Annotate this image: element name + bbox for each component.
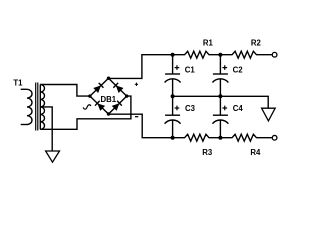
diode D-topright (AC2 to +) — [113, 83, 123, 93]
label + C1 — [175, 65, 180, 70]
label + (bridge positive) — [135, 83, 138, 86]
node bridge bottom corner — [107, 112, 110, 115]
node top rail / C1 — [171, 53, 175, 57]
terminal output - — [272, 135, 277, 140]
label + C2 — [222, 65, 227, 70]
label - (bridge negative) — [135, 116, 138, 118]
wire bridge + to top rail, resistor R1, resistor R2 — [109, 51, 273, 78]
svg-text:R4: R4 — [250, 148, 261, 157]
transformer T1 secondary winding — [40, 85, 44, 130]
label + C4 — [222, 106, 227, 111]
svg-text:C4: C4 — [233, 104, 244, 113]
capacitor C3 — [165, 96, 181, 137]
node bottom rail / C3 — [171, 136, 175, 140]
terminal output + — [272, 52, 277, 57]
node bridge left corner — [88, 94, 91, 97]
node bottom rail / C4 — [218, 136, 222, 140]
svg-text:T1: T1 — [13, 79, 23, 88]
svg-text:C1: C1 — [185, 65, 196, 74]
wire secondary bottom lead to bridge AC2 — [40, 96, 131, 129]
wire bridge - to bottom rail, resistor R3, resistor R4 — [109, 114, 273, 141]
transformer T1 core — [36, 83, 38, 131]
label + C3 — [175, 106, 180, 111]
svg-text:C3: C3 — [185, 104, 196, 113]
capacitor C1 — [165, 55, 181, 97]
node bridge top corner — [107, 77, 110, 80]
svg-text:R3: R3 — [202, 148, 213, 157]
svg-text:R2: R2 — [251, 39, 262, 48]
svg-text:C2: C2 — [233, 65, 244, 74]
capacitor C2 — [212, 55, 228, 97]
node top rail / C2 — [218, 53, 222, 57]
node bridge right corner — [125, 94, 128, 97]
diode D-bottomleft (- to AC1) — [95, 101, 105, 111]
ground (transformer center tap) — [46, 151, 60, 162]
wire secondary top lead to bridge AC1 — [40, 85, 90, 97]
node middle rail / C1-C3 — [171, 94, 175, 98]
label ~ (bridge AC input) — [83, 105, 91, 109]
node middle rail / C2-C4 — [218, 94, 222, 98]
svg-text:DB1: DB1 — [101, 95, 117, 104]
transformer T1 primary winding — [21, 89, 32, 124]
wire center tap to ground — [40, 107, 52, 151]
diode D-bottomright (- to AC2) — [112, 101, 122, 111]
diode D-topleft (AC1 to +) — [93, 83, 103, 93]
ground (output common) — [262, 108, 276, 121]
svg-text:R1: R1 — [203, 39, 214, 48]
bridge rectifier DB1 diamond — [90, 78, 127, 114]
capacitor C4 — [212, 96, 228, 137]
wire middle rail — [173, 96, 269, 108]
